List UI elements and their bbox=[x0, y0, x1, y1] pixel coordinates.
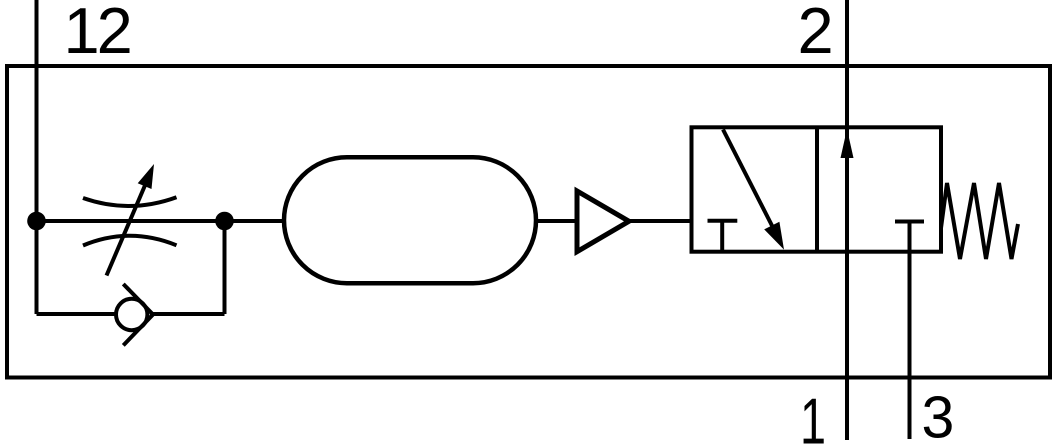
flow control valve adjustment arrow bbox=[107, 164, 155, 276]
svg-text:3: 3 bbox=[922, 384, 955, 444]
enclosure frame bbox=[7, 66, 1050, 378]
svg-text:2: 2 bbox=[798, 0, 834, 67]
valve U1 left cell blocked port T bbox=[708, 221, 738, 252]
valve U1 body (3/2 valve) bbox=[692, 127, 942, 251]
air reservoir (accumulator) capsule bbox=[284, 157, 536, 283]
svg-text:12: 12 bbox=[64, 0, 130, 67]
wire B to reservoir bbox=[225, 219, 285, 223]
valve U1 right cell flow arrow head bbox=[841, 129, 854, 158]
valve U1 divider bbox=[815, 127, 819, 251]
wire amplifier to valve bbox=[629, 219, 692, 223]
flow control valve (adjustable throttle) arcs bbox=[83, 197, 177, 245]
wire reservoir to amplifier bbox=[536, 219, 577, 223]
wire bypass right vertical bbox=[223, 221, 227, 314]
wire main line A to B bbox=[37, 219, 225, 223]
valve U1 left cell flow path arrow bbox=[723, 130, 784, 250]
node B junction dot bbox=[215, 212, 234, 231]
amplifier triangle bbox=[577, 191, 629, 252]
wire bypass bottom right segment bbox=[150, 312, 225, 316]
wire bypass bottom left segment bbox=[37, 312, 117, 316]
node A junction dot bbox=[27, 212, 46, 231]
svg-text:1: 1 bbox=[800, 385, 826, 444]
spring return bbox=[941, 183, 1018, 259]
wire bypass left vertical bbox=[35, 221, 39, 314]
check valve V1 seat bbox=[123, 284, 153, 345]
wire port 2 vertical bbox=[845, 0, 849, 440]
valve U1 right cell blocked port T bbox=[895, 222, 924, 252]
wire pilot port 12 bbox=[35, 0, 39, 221]
check valve V1 circle bbox=[116, 299, 147, 330]
wire port 3 vertical bbox=[908, 252, 912, 439]
